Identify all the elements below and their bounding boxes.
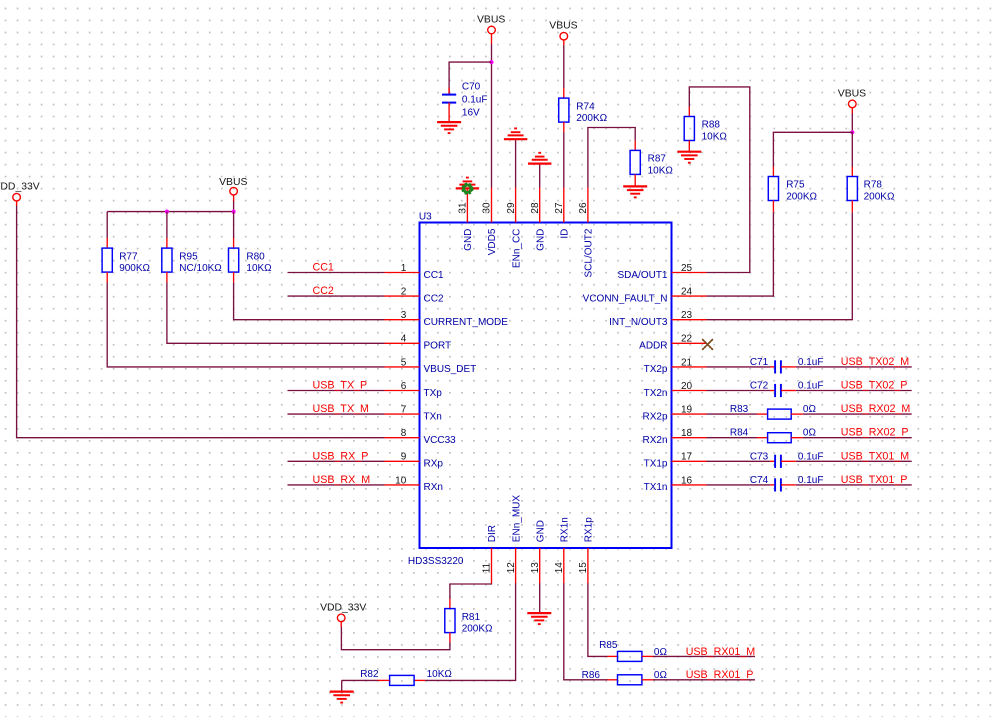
svg-text:SCL/OUT2: SCL/OUT2 [584,228,595,277]
pin 3 CURRENT_MODE stub [385,319,420,321]
svg-text:31: 31 [458,202,469,214]
pin 8 VCC33 stub [385,437,420,439]
svg-text:10KΩ: 10KΩ [427,669,453,680]
svg-text:R82: R82 [360,669,379,680]
wire to net USB_TX01_M [796,460,912,462]
R85 right pin [642,655,653,657]
resistor R88 10KOhm [684,117,727,143]
wire net CC1 [288,272,385,274]
svg-text:30: 30 [482,202,493,214]
svg-text:USB_TX01_M: USB_TX01_M [841,450,909,462]
pin 10 RXn stub [385,484,420,486]
svg-text:R75: R75 [786,180,805,191]
R77 bottom pin [106,272,108,282]
svg-text:22: 22 [681,334,693,345]
svg-text:26: 26 [578,202,589,214]
svg-text:USB_TX02_M: USB_TX02_M [841,356,909,368]
svg-text:VBUS_DET: VBUS_DET [424,364,477,375]
svg-text:C70: C70 [462,82,481,93]
R87 top pin [634,141,636,151]
junction bus/VBUS/R80 [232,210,236,214]
svg-text:200KΩ: 200KΩ [864,192,895,203]
pin 26 SCL/OUT2 stub [587,188,589,223]
capacitor C73 0.1uF [775,455,781,468]
R85 left pin [607,655,617,657]
svg-text:R74: R74 [576,101,595,112]
C72 left pin [770,390,775,392]
wire to net USB_TX02_M [796,366,912,368]
svg-text:11: 11 [482,562,493,573]
wire resistor top bus R77-R95-R80 [107,211,233,213]
svg-text:R88: R88 [702,120,721,131]
R78 top pin [851,167,853,177]
pin 5 VBUS_DET stub [385,366,420,368]
capacitor C70 bottom pin [448,103,450,123]
svg-text:200KΩ: 200KΩ [786,192,817,203]
ground under pin 13 [527,613,551,624]
wire VBUS2 down to R74 [563,45,565,88]
C74 right pin [781,484,796,486]
pin 27 ID stub [563,188,565,223]
wire to net USB_RX01_P [653,679,755,681]
svg-text:DIR: DIR [487,525,498,542]
svg-text:GND: GND [463,229,474,251]
wire VBUS left drop to bus [233,201,235,211]
pin 11 DIR stub [491,548,493,584]
wire R95 to pin 4 [167,282,385,343]
svg-text:3: 3 [401,310,407,321]
svg-text:13: 13 [530,562,541,574]
pin 30 VDD5 stub [491,188,493,223]
wire R82 to ground [342,679,378,681]
svg-text:USB_RX_M: USB_RX_M [313,474,371,486]
svg-text:R78: R78 [864,180,883,191]
svg-text:28: 28 [530,202,541,214]
wire pin row to C74 [707,484,771,486]
main IC U3 HD3SS3220 body [420,223,672,549]
R81 bottom pin [449,633,451,643]
svg-text:16V: 16V [462,107,480,118]
svg-text:C74: C74 [750,475,769,486]
svg-text:R87: R87 [648,154,667,165]
power port VBUS top-right symbol [838,88,866,107]
svg-text:21: 21 [681,357,693,368]
svg-text:RX2n: RX2n [642,435,667,446]
svg-text:TX1n: TX1n [644,482,668,493]
wire R78 top connect [851,132,853,167]
svg-text:GND: GND [535,229,546,251]
wire pin row to R84 [707,437,758,439]
svg-text:USB_RX01_P: USB_RX01_P [686,669,754,681]
svg-text:10KΩ: 10KΩ [648,166,674,177]
R78 bottom pin [851,201,853,213]
capacitor C71 0.1uF [775,360,781,373]
svg-text:12: 12 [506,562,517,574]
svg-text:PORT: PORT [424,341,452,352]
R74 bottom pin [563,122,565,132]
svg-text:VDD5: VDD5 [487,228,498,255]
R75 top pin [772,167,774,177]
pin 6 TXp stub [385,390,420,392]
pin 14 RX1n stub [563,548,565,584]
svg-text:VCONN_FAULT_N: VCONN_FAULT_N [583,293,668,304]
pin 7 TXn stub [385,413,420,415]
pin 13 GND stub [539,548,541,584]
ground under R88 [677,152,701,163]
svg-text:ADDR: ADDR [639,341,667,352]
wire R74 to pin 27 ID [563,132,565,187]
svg-text:CURRENT_MODE: CURRENT_MODE [424,317,509,328]
svg-text:R95: R95 [179,251,198,262]
svg-text:C71: C71 [750,357,769,368]
svg-text:INT_N/OUT3: INT_N/OUT3 [609,317,668,328]
no-ERC green marker at pin 31 [462,183,473,194]
wire pin 25 right-up-left to R88 [689,87,750,273]
R83 right pin [791,413,803,415]
wire R80 top connect [233,212,235,238]
svg-text:HD3SS3220: HD3SS3220 [408,556,464,567]
svg-text:RX1p: RX1p [584,517,595,542]
pin 31 GND stub [466,188,468,223]
svg-text:VBUS: VBUS [838,88,866,99]
wire pin 29 up to ground [515,139,517,187]
svg-text:900KΩ: 900KΩ [119,263,150,274]
svg-text:200KΩ: 200KΩ [462,624,493,635]
resistor R78 200KOhm [847,177,895,203]
junction VBUS1/C70 branch [489,60,493,64]
svg-text:4: 4 [401,334,407,345]
svg-text:USB_RX02_M: USB_RX02_M [841,403,911,415]
svg-text:ENn_CC: ENn_CC [511,229,522,268]
svg-text:29: 29 [506,202,517,214]
svg-text:CC1: CC1 [313,262,334,274]
wire R80 to pin 3 [234,282,385,319]
junction bus/R95 [165,210,169,214]
pin 17 TX1p stub [672,460,707,462]
resistor R95 NC/10KΩ [162,248,223,274]
ground symbol pin 31 GND [456,178,479,189]
pin 12 ENn_MUX stub [515,548,517,584]
svg-text:CC2: CC2 [424,293,444,304]
svg-text:2: 2 [401,287,407,298]
wire R75 down to pin 24 [707,212,774,296]
svg-text:15: 15 [578,562,589,574]
svg-text:USB_RX_P: USB_RX_P [313,450,369,462]
svg-text:VDD_33V: VDD_33V [0,182,40,193]
svg-text:9: 9 [401,452,407,463]
power port VBUS top-1 symbol [477,14,505,34]
wire to net USB_TX02_P [796,390,912,392]
pin 20 TX2n stub [672,390,707,392]
svg-text:6: 6 [401,381,407,392]
resistor R86 0 Ohm [618,675,642,685]
R74 top pin [563,88,565,98]
svg-text:C73: C73 [750,451,769,462]
wire pin 15 RX1p down-right to R85 [588,583,608,656]
pin 16 TX1n stub [672,484,707,486]
wire pin row to R83 [707,413,758,415]
svg-text:RXp: RXp [424,459,444,470]
C73 left pin [770,460,775,462]
ground under R87 [623,186,647,197]
svg-text:CC2: CC2 [313,285,334,297]
wire R95 top connect [166,212,168,238]
wire pin 12 ENn_MUX down-left to R82 [425,583,515,680]
C71 left pin [770,366,775,368]
svg-text:R77: R77 [119,251,138,262]
R87 bottom pin [634,174,636,186]
svg-text:GND: GND [535,520,546,542]
resistor R87 10KOhm [630,150,673,176]
svg-text:RXn: RXn [424,482,443,493]
svg-text:8: 8 [401,428,407,439]
pin 28 GND stub [539,188,541,223]
svg-text:USB_RX02_P: USB_RX02_P [841,427,909,439]
svg-text:10KΩ: 10KΩ [246,263,272,274]
wire net USB_TX_P [288,390,385,392]
svg-text:R80: R80 [246,251,265,262]
wire net USB_TX_M [288,413,385,415]
svg-text:R86: R86 [582,670,601,681]
R81 top pin [449,599,451,609]
wire VBUS1 down to pin 30 [491,44,493,188]
pin 24 VCONN_FAULT_N stub [672,295,707,297]
svg-text:VBUS: VBUS [477,14,505,25]
pin 15 RX1p stub [587,548,589,584]
R82 right pin [414,679,425,681]
pin 4 PORT stub [385,342,420,344]
wire pin row to C72 [707,390,771,392]
svg-text:10KΩ: 10KΩ [702,132,728,143]
wire R81 to VDD_33V [341,627,450,650]
wire net CC2 [288,295,385,297]
C71 right pin [781,366,796,368]
svg-text:10: 10 [395,475,407,486]
resistor R80 10KΩ [229,248,273,274]
svg-text:200KΩ: 200KΩ [576,113,607,124]
svg-text:USB_TX_M: USB_TX_M [313,403,370,415]
R86 right pin [642,679,653,681]
ground under C70 [437,122,461,133]
svg-text:TX2n: TX2n [644,388,668,399]
pin 1 CC1 stub [385,272,420,274]
R95 top pin [166,238,168,248]
wire R82 ground drop [341,680,343,691]
svg-text:VBUS: VBUS [549,21,577,32]
R84 left pin [757,437,768,439]
wire pin 26 up-right to R87 [588,128,635,188]
svg-text:R84: R84 [730,428,749,439]
svg-text:25: 25 [681,263,693,274]
no-connect X marker on pin 22 ADDR [703,340,713,350]
R88 top pin [688,107,690,117]
capacitor C74 0.1uF [775,478,781,491]
wire VBUS left stub [233,195,235,202]
svg-text:5: 5 [401,357,407,368]
VDD_33V bottom stub [340,622,342,627]
ground symbol above pin 29 ENn_CC [504,128,527,139]
svg-text:RX1n: RX1n [560,517,571,542]
svg-text:20: 20 [681,381,693,392]
svg-text:R83: R83 [730,404,749,415]
svg-text:VCC33: VCC33 [424,435,457,446]
svg-text:CC1: CC1 [424,270,444,281]
ground under R82 [330,692,354,703]
svg-text:TXp: TXp [424,388,443,399]
wire VDD_33V down-right to pin 8 VCC33 [17,206,385,438]
R82 left pin [378,679,390,681]
svg-text:TXn: TXn [424,411,442,422]
wire net USB_RX_P [288,460,385,462]
svg-text:VDD_33V: VDD_33V [320,602,366,613]
resistor R74 200KOhm [559,98,608,124]
svg-text:TX2p: TX2p [644,364,668,375]
R80 top pin [233,238,235,248]
resistor R83 0 Ohm [768,409,792,419]
wire VDD_33V stub [16,201,18,206]
svg-text:TX1p: TX1p [644,459,668,470]
R88 bottom pin [688,141,690,152]
svg-text:U3: U3 [419,211,432,222]
wire pin row to C73 [707,460,771,462]
svg-text:RX2p: RX2p [642,411,667,422]
wire VBUS3 down to junction [851,113,853,132]
resistor R75 200KOhm [768,177,817,203]
wire VBUS2 stub [563,40,565,46]
pin 25 SDA/OUT1 stub [672,272,707,274]
svg-text:USB_TX01_P: USB_TX01_P [841,474,908,486]
R75 bottom pin [772,201,774,213]
wire pin 28 up to ground [539,164,541,188]
wire R77 top connect [106,212,108,238]
wire to net USB_RX02_P [803,437,912,439]
pin 2 CC2 stub [385,295,420,297]
svg-text:R81: R81 [462,612,481,623]
pin 18 RX2n stub [672,437,707,439]
svg-text:14: 14 [554,562,565,574]
pin 22 ADDR stub [672,342,707,344]
wire junction to R75 top [773,132,852,167]
svg-text:17: 17 [681,452,693,463]
wire to net USB_RX01_M [653,655,755,657]
wire VBUS3 stub [851,108,853,114]
ground symbol above pin 28 GND [528,153,551,164]
C74 left pin [770,484,775,486]
wire VBUS1 stub [491,34,493,44]
R83 left pin [757,413,768,415]
junction VBUS3/R75/R78 [850,130,854,134]
resistor R85 0 Ohm [618,651,642,661]
C73 right pin [781,460,796,462]
resistor R82 10KOhm [390,675,415,685]
wire net USB_RX_M [288,484,385,486]
svg-text:0.1uF: 0.1uF [462,94,488,105]
svg-text:16: 16 [681,475,693,486]
wire to net USB_TX01_P [796,484,912,486]
svg-text:27: 27 [554,202,565,214]
C72 right pin [781,390,796,392]
svg-text:7: 7 [401,405,407,416]
svg-text:NC/10KΩ: NC/10KΩ [179,263,222,274]
pin 29 ENn_CC stub [515,188,517,223]
svg-text:C72: C72 [750,381,769,392]
pin 9 RXp stub [385,460,420,462]
wire pin 14 RX1n down-right to R86 [564,583,608,680]
svg-text:R85: R85 [599,640,618,651]
svg-text:USB_TX02_P: USB_TX02_P [841,380,908,392]
wire R78 down to pin 23 [707,212,853,320]
svg-text:USB_RX01_M: USB_RX01_M [686,646,756,658]
svg-text:1: 1 [401,263,407,274]
pin 19 RX2p stub [672,413,707,415]
svg-text:USB_TX_P: USB_TX_P [313,380,368,392]
resistor R77 900KΩ [102,248,150,274]
capacitor C70 0.1uF 16V [442,82,487,119]
svg-text:23: 23 [681,310,693,321]
wire R77 to pin 5 [107,282,384,367]
svg-text:19: 19 [681,405,693,416]
wire pin row to C71 [707,366,771,368]
svg-text:VBUS: VBUS [219,177,247,188]
R77 top pin [106,238,108,248]
R80 bottom pin [233,272,235,282]
svg-text:18: 18 [681,428,693,439]
svg-text:SDA/OUT1: SDA/OUT1 [617,270,667,281]
pin 23 INT_N/OUT3 stub [672,319,707,321]
R86 left pin [607,679,617,681]
resistor R84 0 Ohm [768,433,792,443]
svg-text:24: 24 [681,287,693,298]
svg-text:ID: ID [560,229,571,239]
wire to net USB_RX02_M [803,413,912,415]
R95 bottom pin [166,272,168,282]
wire C70 branch horizontal [449,62,491,94]
capacitor C72 0.1uF [775,384,781,397]
power port VBUS top-2 symbol [549,21,577,40]
power port VBUS left symbol [219,177,247,195]
resistor R81 200KOhm [445,609,493,635]
capacitor C70 top pin [448,88,450,95]
R84 right pin [791,437,803,439]
svg-text:ENn_MUX: ENn_MUX [511,495,522,543]
power port VDD_33V bottom symbol [320,602,366,621]
wire pin 13 GND down [539,583,541,613]
pin 21 TX2p stub [672,366,707,368]
power port VDD_33V top-left symbol [0,182,40,201]
wire pin 11 DIR to R81 [450,583,492,599]
